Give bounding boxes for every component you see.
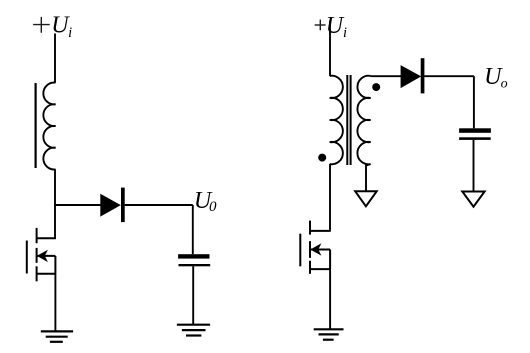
V1 body line: [37, 255, 55, 257]
polarity dot (primary, bottom): [318, 154, 326, 162]
ground (below C1): [177, 325, 210, 336]
inductor L (4 turns): [43, 83, 55, 170]
V2 body line: [310, 249, 330, 251]
ground triangle (secondary): [355, 191, 377, 206]
V1 channel segment bottom: [36, 266, 38, 281]
wire output node down to capacitor C1: [192, 205, 194, 254]
wire output node down to capacitor C2: [473, 76, 475, 128]
diode VD1: [100, 188, 124, 223]
svg-text:o: o: [501, 77, 508, 92]
wire branch to diode VD1: [55, 204, 101, 206]
wire capacitor C1 to ground: [192, 266, 194, 324]
wire diode VD1 to output node: [125, 204, 193, 206]
V1 body-source connector: [54, 256, 56, 274]
svg-text:U: U: [326, 13, 345, 39]
wire secondary bottom to ground triangle: [366, 164, 371, 191]
ground (V2 source): [314, 329, 344, 339]
svg-text:0: 0: [209, 199, 217, 215]
svg-text:i: i: [343, 25, 347, 41]
V2 body-source connector: [329, 250, 331, 270]
V1 channel segment top: [36, 228, 38, 243]
V1 channel segment middle: [36, 248, 38, 263]
transistor V2 (power MOSFET, right): [300, 221, 331, 274]
wire diode VD2 to output node: [424, 75, 474, 77]
label +Ui (right): [315, 20, 326, 31]
polarity dot (secondary, top): [372, 83, 380, 91]
label +Ui (left): [33, 17, 50, 33]
diode VD2: [401, 58, 425, 93]
V2 source connection: [310, 268, 331, 270]
ground (V1 source): [41, 331, 73, 341]
wire input rail (right): [329, 21, 331, 76]
V2 channel segment middle: [309, 241, 311, 258]
V1 body arrow head: [37, 250, 48, 262]
ground triangle (below C2): [462, 192, 484, 207]
wire primary bottom to V2 drain: [329, 164, 331, 231]
wire drain rail (left): [54, 169, 56, 239]
wire secondary top to diode VD2: [371, 75, 401, 77]
transistor V1 (power MOSFET, left): [27, 228, 56, 281]
capacitor C2: [459, 128, 491, 140]
capacitor C1: [178, 254, 210, 266]
wire capacitor C2 to ground triangle: [473, 140, 475, 191]
V2 channel segment bottom: [309, 261, 311, 274]
V2 gate bar: [299, 234, 301, 267]
svg-text:i: i: [68, 25, 72, 41]
transformer T secondary winding (4 turns): [357, 76, 370, 165]
transformer T core: [346, 75, 348, 165]
wire V2 source to ground: [329, 269, 331, 329]
V1 source connection: [37, 273, 56, 275]
V1 gate bar: [26, 241, 28, 274]
V1 drain connection: [37, 237, 56, 239]
inductor L core bar: [34, 83, 36, 168]
transformer T primary winding (4 turns): [330, 76, 343, 165]
V2 body arrow head: [310, 243, 321, 255]
wire input rail top (left): [54, 34, 56, 83]
V2 drain connection: [310, 230, 331, 232]
V2 channel segment top: [309, 221, 311, 235]
wire V1 source to ground: [54, 274, 56, 332]
